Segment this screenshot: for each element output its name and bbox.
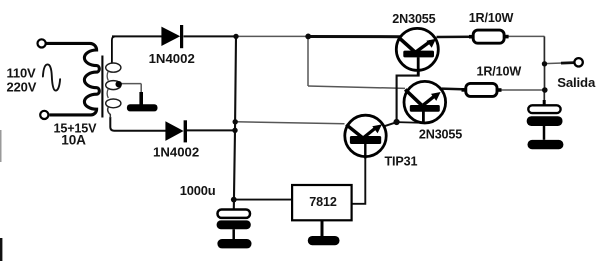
svg-text:2N3055: 2N3055 [392,12,435,26]
svg-text:1R/10W: 1R/10W [469,11,514,25]
svg-text:220V: 220V [7,80,37,95]
svg-text:TIP31: TIP31 [385,155,418,169]
svg-text:1N4002: 1N4002 [149,51,195,66]
svg-text:110V: 110V [7,66,37,81]
svg-text:7812: 7812 [309,195,337,209]
svg-text:Salida: Salida [557,75,596,90]
svg-text:1000u: 1000u [180,183,216,198]
svg-text:2N3055: 2N3055 [419,128,462,142]
svg-text:1R/10W: 1R/10W [477,65,522,79]
svg-text:10A: 10A [61,133,86,148]
svg-text:1N4002: 1N4002 [153,145,199,160]
